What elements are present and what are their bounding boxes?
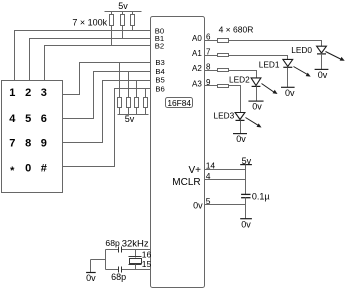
svg-text:1: 1 — [9, 87, 15, 99]
svg-text:5: 5 — [206, 196, 211, 206]
svg-text:15: 15 — [142, 259, 152, 269]
svg-text:LED1: LED1 — [259, 60, 280, 70]
svg-text:5v: 5v — [125, 114, 135, 124]
svg-text:A1: A1 — [192, 49, 202, 58]
svg-text:0.1µ: 0.1µ — [252, 192, 270, 202]
svg-text:6: 6 — [41, 113, 47, 125]
svg-text:0v: 0v — [193, 200, 203, 210]
svg-text:8: 8 — [206, 62, 211, 71]
svg-text:8: 8 — [25, 138, 31, 150]
svg-text:2: 2 — [25, 87, 31, 99]
svg-text:0: 0 — [25, 162, 31, 174]
svg-text:4: 4 — [206, 171, 211, 181]
svg-text:14: 14 — [206, 160, 216, 170]
svg-text:16F84: 16F84 — [167, 98, 191, 108]
svg-text:7: 7 — [206, 47, 211, 56]
svg-text:4 × 680R: 4 × 680R — [219, 24, 254, 34]
svg-text:0v: 0v — [86, 273, 96, 283]
svg-text:LED0: LED0 — [291, 45, 312, 55]
svg-text:*: * — [10, 165, 15, 177]
svg-text:V+: V+ — [188, 165, 201, 176]
svg-text:#: # — [41, 162, 47, 174]
svg-text:0v: 0v — [318, 70, 328, 80]
svg-text:LED2: LED2 — [229, 74, 250, 84]
svg-text:7 × 100k: 7 × 100k — [72, 18, 107, 28]
svg-text:A3: A3 — [192, 79, 202, 88]
svg-text:B3: B3 — [155, 58, 164, 67]
svg-text:0v: 0v — [241, 219, 251, 229]
svg-text:3: 3 — [41, 87, 47, 99]
svg-text:9: 9 — [206, 78, 211, 87]
svg-text:32kHz: 32kHz — [122, 238, 149, 249]
svg-text:B4: B4 — [155, 67, 165, 76]
svg-text:B6: B6 — [155, 85, 164, 94]
svg-text:4: 4 — [9, 113, 16, 125]
svg-text:A2: A2 — [192, 64, 202, 73]
svg-text:LED3: LED3 — [214, 110, 235, 120]
svg-text:7: 7 — [9, 138, 15, 150]
svg-text:A0: A0 — [192, 34, 202, 43]
svg-text:0v: 0v — [252, 102, 262, 112]
svg-text:68p: 68p — [105, 238, 120, 248]
svg-text:6: 6 — [206, 33, 211, 42]
svg-text:B5: B5 — [155, 76, 164, 85]
svg-text:B2: B2 — [155, 42, 164, 51]
svg-text:9: 9 — [41, 138, 47, 150]
svg-text:0v: 0v — [285, 88, 295, 98]
svg-text:0v: 0v — [236, 134, 246, 144]
svg-text:MCLR: MCLR — [172, 177, 200, 188]
svg-text:5: 5 — [25, 113, 31, 125]
svg-text:5v: 5v — [118, 1, 128, 11]
svg-text:68p: 68p — [111, 272, 126, 282]
